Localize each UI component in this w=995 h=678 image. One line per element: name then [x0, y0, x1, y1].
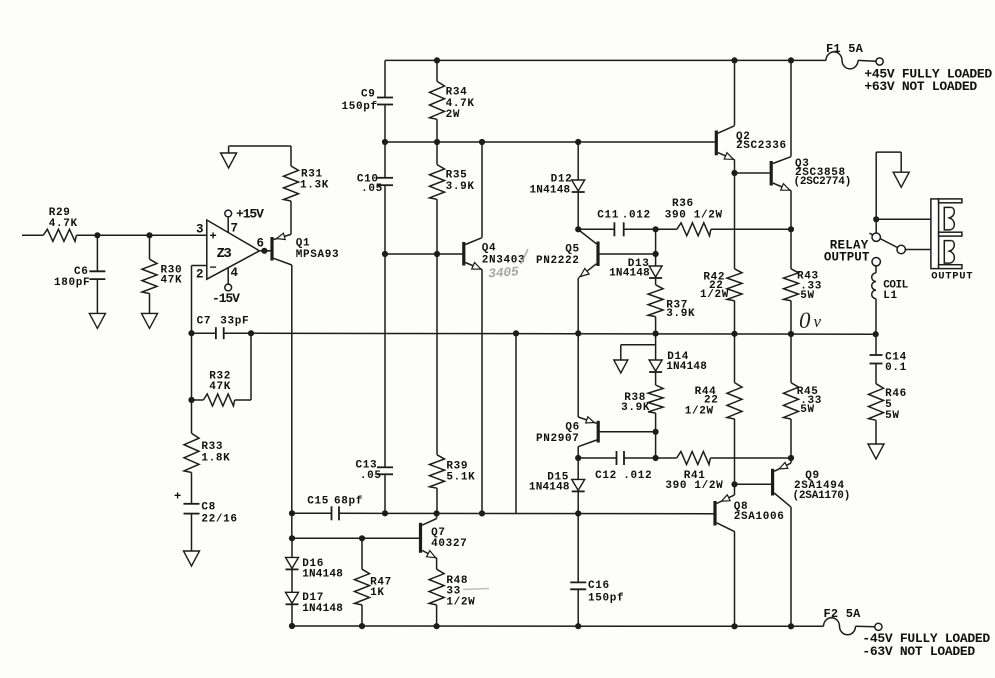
svg-text:R36: R36 [672, 198, 694, 210]
svg-text:F2 5A: F2 5A [824, 607, 862, 621]
svg-text:1/2W: 1/2W [685, 406, 714, 418]
svg-text:MPSA93: MPSA93 [296, 249, 340, 261]
svg-text:1N4148: 1N4148 [666, 361, 707, 373]
svg-text:150pf: 150pf [342, 101, 378, 113]
svg-text:C9: C9 [361, 89, 376, 101]
svg-text:180pF: 180pF [54, 277, 90, 289]
svg-text:PN2222: PN2222 [536, 255, 580, 267]
svg-text:22/16: 22/16 [201, 514, 237, 526]
svg-text:5.1K: 5.1K [446, 472, 475, 484]
svg-text:1N4148: 1N4148 [609, 268, 650, 280]
svg-text:Q4: Q4 [482, 243, 497, 255]
svg-text:3: 3 [196, 223, 204, 237]
svg-text:C8: C8 [201, 502, 216, 514]
svg-text:.012: .012 [623, 470, 652, 482]
svg-text:R35: R35 [446, 170, 468, 182]
svg-text:-15V: -15V [212, 291, 240, 306]
svg-text:68pf: 68pf [334, 495, 363, 507]
svg-text:40327: 40327 [431, 538, 467, 550]
svg-text:L1: L1 [883, 290, 898, 302]
svg-text:5W: 5W [800, 290, 815, 302]
svg-text:390 1/2W: 390 1/2W [665, 480, 723, 492]
svg-text:2SA1006: 2SA1006 [734, 511, 785, 523]
svg-text:1N4148: 1N4148 [302, 569, 343, 581]
svg-text:OUTPUT: OUTPUT [931, 271, 973, 283]
svg-text:0: 0 [799, 308, 811, 333]
svg-text:5W: 5W [885, 410, 900, 422]
svg-text:+63V NOT LOADED: +63V NOT LOADED [864, 79, 977, 94]
svg-text:Q5: Q5 [565, 244, 580, 256]
svg-text:47K: 47K [209, 381, 231, 393]
svg-text:F1 5A: F1 5A [826, 42, 864, 56]
svg-text:4.7K: 4.7K [49, 218, 78, 230]
svg-text:4: 4 [231, 266, 239, 280]
svg-text:1N4148: 1N4148 [530, 185, 571, 197]
svg-text:C15: C15 [307, 495, 329, 507]
svg-text:Q6: Q6 [565, 422, 580, 434]
svg-text:-63V NOT LOADED: -63V NOT LOADED [862, 644, 975, 659]
svg-text:.012: .012 [622, 210, 651, 222]
svg-text:1.8K: 1.8K [201, 453, 230, 465]
svg-text:3.9K: 3.9K [621, 402, 650, 414]
svg-text:1K: 1K [370, 587, 385, 599]
svg-text:−: − [210, 261, 217, 275]
svg-text:2SC2336: 2SC2336 [736, 140, 787, 152]
svg-text:+: + [174, 490, 181, 504]
svg-text:1N4148: 1N4148 [529, 482, 570, 494]
svg-text:C12: C12 [595, 470, 617, 482]
svg-text:1.3K: 1.3K [300, 180, 329, 192]
svg-text:C11: C11 [597, 210, 619, 222]
svg-text:2W: 2W [446, 109, 461, 121]
svg-text:33pF: 33pF [220, 316, 249, 328]
svg-text:R33: R33 [201, 441, 223, 453]
svg-text:PN2907: PN2907 [536, 433, 580, 445]
svg-text:3.9K: 3.9K [446, 181, 475, 193]
svg-text:2: 2 [196, 268, 204, 282]
svg-text:Q1: Q1 [296, 238, 311, 250]
svg-text:C16: C16 [588, 580, 610, 592]
svg-text:1/2W: 1/2W [700, 289, 729, 301]
svg-text:5W: 5W [800, 404, 815, 416]
svg-text:Z3: Z3 [217, 246, 232, 262]
svg-text:(2SC2774): (2SC2774) [794, 176, 852, 188]
svg-text:(2SA1170): (2SA1170) [793, 490, 851, 502]
svg-text:OUTPUT: OUTPUT [824, 251, 870, 265]
svg-text:3.9K: 3.9K [666, 308, 695, 320]
svg-text:6: 6 [257, 237, 265, 251]
svg-text:1N4148: 1N4148 [302, 603, 343, 615]
svg-text:7: 7 [231, 222, 239, 236]
svg-text:+: + [210, 230, 217, 244]
svg-text:390 1/2W: 390 1/2W [665, 210, 723, 222]
svg-text:150pf: 150pf [588, 593, 624, 605]
svg-text:C7: C7 [197, 316, 212, 328]
svg-text:47K: 47K [161, 275, 183, 287]
svg-text:R34: R34 [446, 87, 468, 99]
svg-text:.05: .05 [361, 183, 383, 195]
svg-text:1/2W: 1/2W [446, 597, 475, 609]
svg-text:3405: 3405 [488, 264, 520, 281]
svg-text:0.1: 0.1 [885, 362, 907, 374]
svg-text:v: v [814, 312, 822, 331]
svg-text:+15V: +15V [236, 207, 264, 222]
svg-text:.05: .05 [360, 470, 382, 482]
